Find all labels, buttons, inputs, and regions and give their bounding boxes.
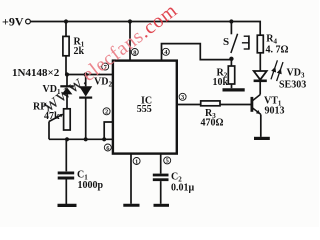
svg-text:+9V: +9V xyxy=(2,15,24,29)
svg-text:470Ω: 470Ω xyxy=(201,118,224,129)
svg-text:S: S xyxy=(223,36,229,48)
svg-text:555: 555 xyxy=(137,104,152,115)
svg-text:2: 2 xyxy=(105,109,108,116)
svg-text:10k: 10k xyxy=(213,77,229,88)
svg-text:2k: 2k xyxy=(74,46,85,57)
svg-text:1000p: 1000p xyxy=(78,180,104,191)
svg-text:1N4148×2: 1N4148×2 xyxy=(12,67,60,79)
svg-text:SE303: SE303 xyxy=(279,80,306,91)
svg-text:0.01μ: 0.01μ xyxy=(171,183,195,194)
svg-text:5: 5 xyxy=(166,158,169,165)
svg-text:1: 1 xyxy=(135,158,138,165)
svg-text:3: 3 xyxy=(181,94,184,101)
svg-text:9013: 9013 xyxy=(265,106,285,117)
svg-text:4. 7Ω: 4. 7Ω xyxy=(266,45,289,56)
